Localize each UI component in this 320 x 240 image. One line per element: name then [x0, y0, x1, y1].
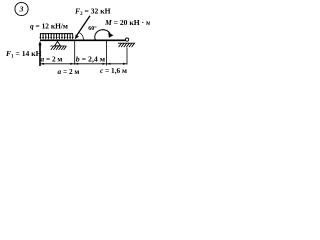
- svg-text:F1 = 14 кН: F1 = 14 кН: [6, 49, 42, 60]
- svg-text:60°: 60°: [88, 25, 97, 32]
- svg-text:c = 1,6 м: c = 1,6 м: [100, 66, 127, 75]
- svg-text:M = 20 кН · м: M = 20 кН · м: [104, 18, 150, 27]
- svg-text:F2 = 32 кН: F2 = 32 кН: [75, 7, 111, 17]
- svg-text:a = 2 м: a = 2 м: [41, 54, 63, 63]
- svg-text:3: 3: [19, 5, 24, 14]
- svg-text:q = 12 кН/м: q = 12 кН/м: [30, 22, 68, 31]
- svg-text:b = 2,4 м: b = 2,4 м: [76, 54, 106, 63]
- svg-text:a = 2 м: a = 2 м: [58, 67, 80, 76]
